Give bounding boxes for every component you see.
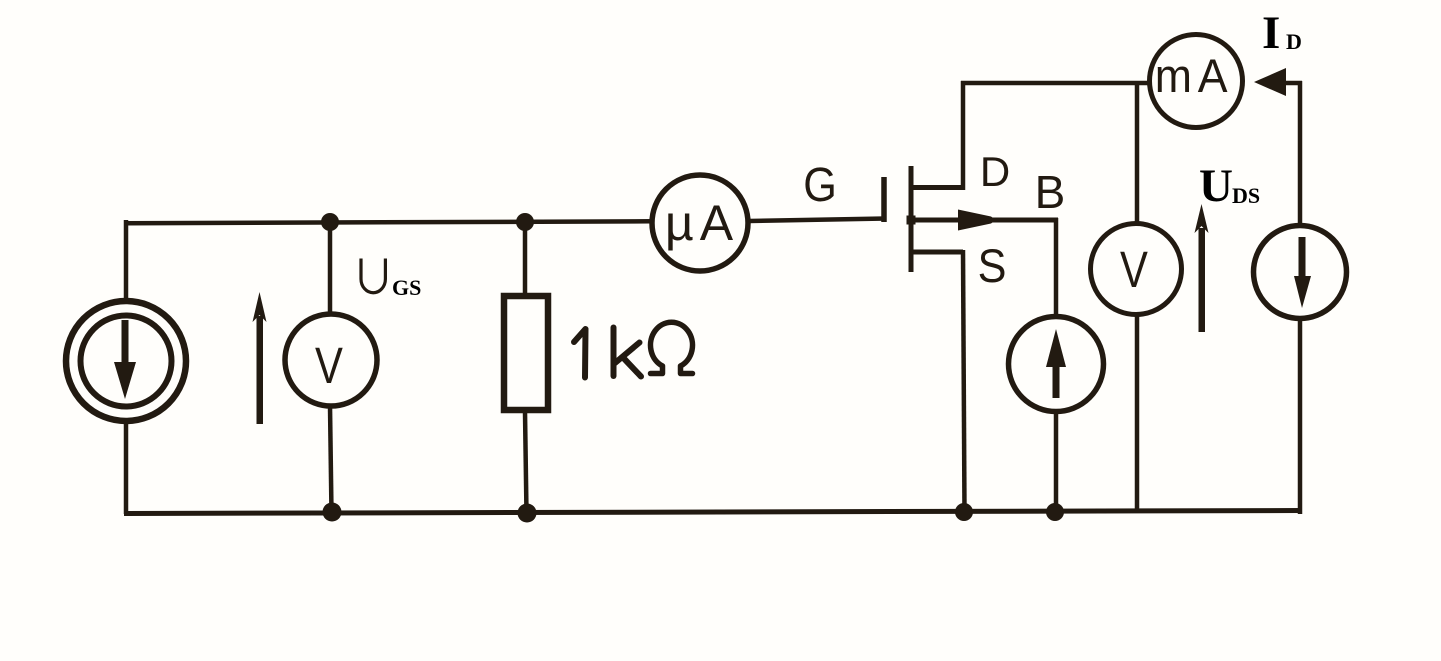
svg-text:B: B bbox=[1035, 166, 1066, 218]
svg-text:V: V bbox=[1120, 241, 1148, 298]
svg-text:GS: GS bbox=[392, 275, 421, 300]
svg-text:D: D bbox=[980, 148, 1010, 195]
svg-text:µA: µA bbox=[665, 195, 739, 251]
svg-text:G: G bbox=[803, 158, 837, 212]
svg-text:mA: mA bbox=[1155, 50, 1233, 102]
svg-text:U: U bbox=[1199, 160, 1233, 212]
svg-text:D: D bbox=[1286, 29, 1302, 54]
svg-text:DS: DS bbox=[1232, 183, 1260, 208]
svg-text:S: S bbox=[978, 239, 1007, 292]
svg-text:V: V bbox=[315, 337, 343, 394]
svg-text:I: I bbox=[1262, 7, 1280, 59]
